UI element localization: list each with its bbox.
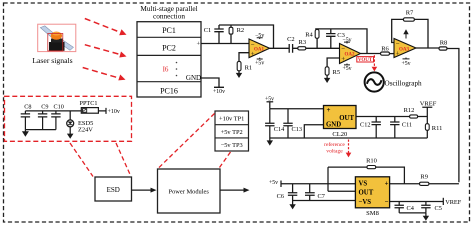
svg-text:+10v TP1: +10v TP1	[219, 116, 244, 123]
svg-text:R5: R5	[333, 69, 341, 76]
svg-text:C6: C6	[277, 193, 284, 200]
svg-text:+5v: +5v	[269, 180, 278, 186]
svg-text:R11: R11	[432, 125, 443, 132]
svg-text:OA2: OA2	[345, 53, 356, 58]
svg-text:C9: C9	[41, 104, 48, 111]
svg-text:C10: C10	[54, 104, 64, 111]
svg-text:SM8: SM8	[366, 210, 379, 217]
svg-text:C8: C8	[24, 104, 31, 111]
svg-text:R7: R7	[406, 10, 414, 17]
svg-text:PC16: PC16	[160, 87, 178, 96]
svg-text:R6: R6	[381, 45, 389, 52]
svg-text:+5v: +5v	[342, 66, 351, 72]
svg-text:voltage: voltage	[326, 149, 343, 155]
svg-text:ESD: ESD	[107, 186, 120, 194]
svg-text:R3: R3	[299, 39, 307, 46]
svg-text:−5v: −5v	[342, 37, 351, 43]
svg-text:−5v TP3: −5v TP3	[221, 142, 243, 149]
svg-text:+5v: +5v	[401, 61, 410, 67]
svg-text:−5v: −5v	[255, 33, 264, 39]
svg-text:C2: C2	[287, 36, 295, 43]
svg-text:C14: C14	[274, 126, 285, 133]
svg-text:+: +	[385, 180, 389, 187]
svg-text:VS: VS	[359, 180, 368, 187]
svg-text:connection: connection	[153, 12, 185, 21]
svg-text:−VS: −VS	[359, 199, 372, 206]
svg-text:OA3: OA3	[399, 47, 410, 52]
svg-text:Oscillograph: Oscillograph	[385, 79, 423, 87]
svg-text:I6: I6	[163, 66, 169, 74]
svg-text:R8: R8	[440, 39, 448, 46]
svg-text:GND: GND	[326, 122, 341, 129]
svg-text:R12: R12	[404, 107, 415, 114]
svg-text:PC2: PC2	[162, 44, 176, 53]
svg-text:−: −	[385, 199, 389, 206]
svg-text:R2: R2	[237, 27, 245, 34]
svg-text:+: +	[196, 41, 200, 48]
svg-text:VREF: VREF	[420, 101, 437, 108]
svg-text:OUT: OUT	[359, 190, 374, 197]
svg-text:VOUT: VOUT	[358, 58, 373, 63]
svg-text:C12: C12	[360, 121, 371, 128]
svg-text:Laser signals: Laser signals	[32, 56, 72, 65]
svg-text:GND: GND	[186, 74, 201, 82]
svg-text:C7: C7	[318, 193, 325, 200]
svg-text:Power Modules: Power Modules	[169, 189, 210, 196]
svg-text:CL20: CL20	[332, 131, 347, 138]
svg-text:C4: C4	[407, 205, 415, 212]
svg-text:Z24V: Z24V	[78, 126, 93, 133]
svg-text:PPTC1: PPTC1	[80, 100, 98, 107]
svg-text:+5v: +5v	[255, 61, 264, 67]
svg-text:C13: C13	[292, 126, 303, 133]
svg-text:OUT: OUT	[339, 115, 354, 122]
svg-text:+: +	[327, 106, 331, 114]
svg-text:R1: R1	[245, 65, 253, 72]
svg-text:R4: R4	[305, 31, 313, 38]
svg-text:+10v: +10v	[108, 109, 120, 115]
svg-text:R10: R10	[366, 157, 377, 164]
svg-text:C5: C5	[435, 205, 442, 212]
svg-text:PC1: PC1	[162, 26, 176, 35]
svg-text:reference: reference	[324, 141, 345, 148]
svg-text:C1: C1	[204, 27, 212, 34]
svg-text:VREF: VREF	[445, 199, 462, 206]
svg-text:OA1: OA1	[254, 47, 265, 52]
svg-text:+5v TP2: +5v TP2	[221, 129, 243, 136]
svg-text:R9: R9	[420, 173, 428, 180]
svg-text:C11: C11	[402, 121, 412, 128]
svg-text:+10v: +10v	[213, 89, 225, 95]
